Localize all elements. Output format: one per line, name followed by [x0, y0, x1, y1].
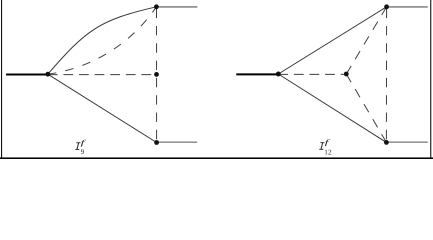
- label I9f: [75, 138, 86, 156]
- svg-text:f: f: [325, 138, 331, 147]
- diagram I9: external line top right: [156, 6, 197, 8]
- svg-text:12: 12: [324, 149, 332, 157]
- diagram I9: vertex V4: [154, 140, 159, 145]
- label I12f: [319, 138, 332, 157]
- diagram I12: dashed vertical V2'-V4': [385, 7, 387, 143]
- diagram I9: vertex V1: [45, 72, 50, 77]
- diagram I12: vertex V1': [276, 72, 281, 77]
- diagram I12: solid line V1'-V2': [278, 7, 386, 74]
- diagram I9: solid arc V1-V2: [48, 7, 157, 74]
- frame left border: [1, 0, 3, 159]
- diagram I9: thick external line left: [6, 73, 48, 75]
- frame right border: [430, 0, 432, 159]
- diagram I9: dashed horizontal V1-V3: [48, 74, 157, 76]
- diagram I12: external line bottom right: [386, 141, 427, 143]
- diagram I9: solid line V1-V4: [48, 74, 157, 142]
- diagram I12: vertex V2': [384, 4, 389, 9]
- diagram I12: dashed line V3'-V4': [346, 74, 386, 142]
- diagram I9: external line bottom right: [157, 141, 198, 143]
- diagram I12: dashed horizontal V1'-V3': [278, 73, 346, 75]
- diagram I9: dashed arc V1-V2: [48, 7, 157, 74]
- diagram I12: external line top right: [387, 6, 428, 8]
- diagram I12: dashed line V3'-V2': [346, 7, 386, 74]
- diagram I9: vertex V2: [154, 4, 159, 9]
- svg-text:9: 9: [81, 148, 85, 156]
- svg-text:f: f: [81, 138, 87, 147]
- diagram I12: solid line V1'-V4': [278, 74, 386, 142]
- diagram I12: thick external line left: [236, 73, 278, 75]
- diagram I9: vertex V3: [154, 72, 159, 77]
- diagram I9: dashed vertical V2-V4: [156, 7, 158, 143]
- diagram I12: vertex V4': [384, 140, 389, 145]
- frame bottom rule: [0, 157, 433, 159]
- diagram I12: vertex V3': [344, 72, 349, 77]
